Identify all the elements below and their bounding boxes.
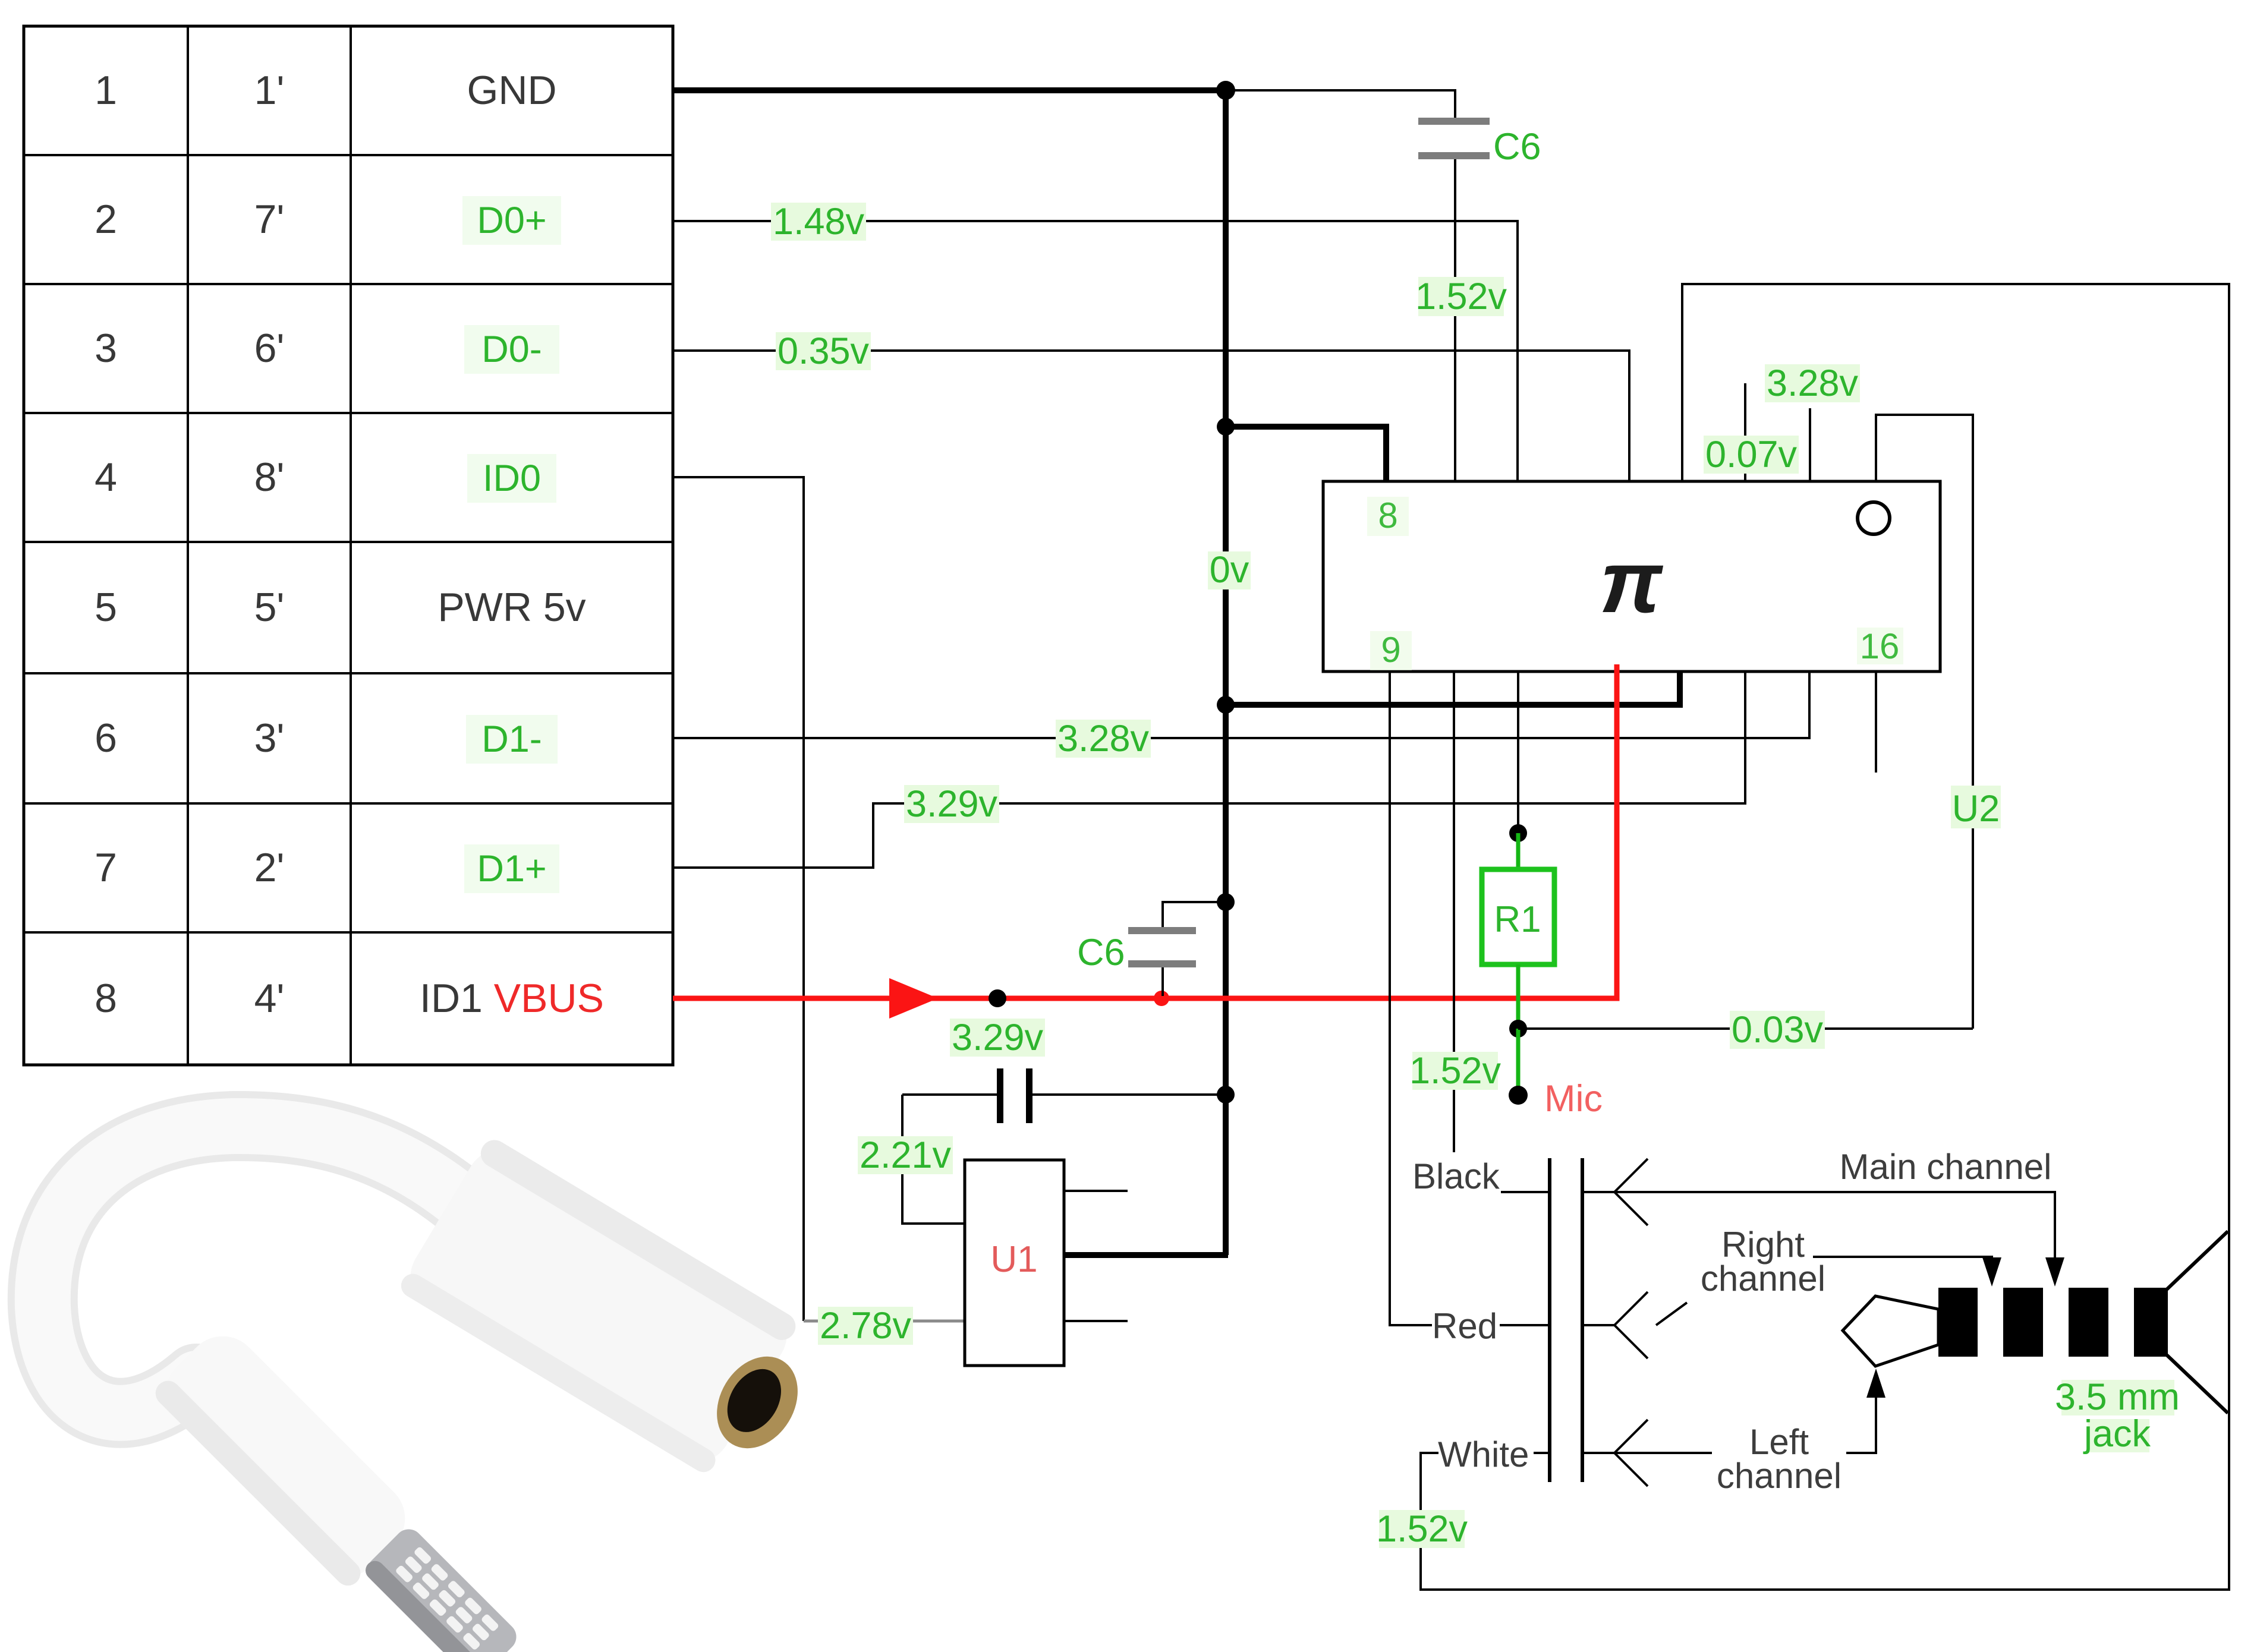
wire VBUS red stub at pi bottom (1614, 664, 1620, 674)
wire GND main thick vertical (1223, 90, 1229, 1255)
svg-text:2: 2 (95, 197, 117, 242)
node junction to pi pin 8 (1217, 418, 1235, 436)
svg-text:D1+: D1+ (477, 848, 546, 890)
wire thick branch into pi bottom (1226, 671, 1680, 705)
wire Main channel (1614, 1192, 2055, 1260)
svg-text:White: White (1438, 1435, 1529, 1474)
svg-text:Red: Red (1432, 1306, 1497, 1346)
node 1.48v label (771, 201, 866, 242)
svg-text:3.29v: 3.29v (952, 1017, 1044, 1058)
svg-text:D1-: D1- (481, 718, 542, 760)
node GND junction (1216, 81, 1235, 100)
pin table (24, 26, 673, 1065)
node 0v label (1208, 549, 1251, 591)
svg-text:ID0: ID0 (483, 458, 541, 499)
jack contact chevron black (1582, 1159, 1648, 1225)
node Left channel arrowhead (1866, 1369, 1885, 1398)
node U2 label (1951, 786, 2001, 830)
svg-text:3: 3 (95, 326, 117, 371)
svg-text:1': 1' (254, 68, 285, 113)
node junction above R1 (1509, 824, 1527, 842)
wire D0+ 1.48v (673, 221, 1518, 481)
svg-text:Black: Black (1412, 1156, 1500, 1196)
node junction below R1 (1509, 1020, 1527, 1038)
wire 0.03v (1518, 1027, 1973, 1030)
capacitor C6 (middle) (1077, 902, 1226, 996)
node Main channel arrowhead (2045, 1257, 2064, 1287)
node 3.5 mm jack label (2055, 1376, 2180, 1455)
capacitor C6 (top) (1418, 118, 1541, 481)
node junction on VBUS (989, 989, 1006, 1007)
wire pi bottom to R1 (1517, 671, 1519, 832)
wire D1- 3.28v (673, 671, 1809, 738)
table column 1 pin numbers (95, 68, 117, 1021)
svg-text:0.35v: 0.35v (777, 330, 870, 372)
svg-text:1: 1 (95, 68, 117, 113)
wire ID0 to U1 (673, 477, 804, 1321)
node 3.28v top label (1765, 362, 1860, 404)
svg-text:9: 9 (1381, 630, 1400, 670)
svg-text:channel: channel (1701, 1259, 1825, 1298)
node 1.52v label bottom left of loop (1376, 1508, 1468, 1550)
svg-text:1.48v: 1.48v (773, 201, 865, 242)
wire GND to C6 (1226, 90, 1455, 119)
svg-text:2.78v: 2.78v (820, 1305, 912, 1347)
photo lightning metal tip (361, 1524, 522, 1652)
svg-text:ID1 VBUS: ID1 VBUS (420, 976, 604, 1021)
svg-text:C6: C6 (1493, 126, 1541, 168)
svg-text:1.52v: 1.52v (1415, 276, 1507, 317)
wire White to capacitor (1534, 1452, 1550, 1454)
wire pin stub 0.07v (1744, 383, 1746, 481)
wire Left channel (1614, 1452, 1712, 1454)
svg-text:5: 5 (95, 585, 117, 630)
capacitor near U1 (902, 1068, 1226, 1224)
jack contact chevron white (1582, 1420, 1648, 1486)
node Mic dot (1509, 1086, 1528, 1105)
node 1.52v label on C6 lead (1415, 276, 1507, 317)
wire Left channel to jack (1846, 1396, 1876, 1453)
node 2.21v label (858, 1134, 953, 1176)
svg-text:Main channel: Main channel (1840, 1147, 2052, 1187)
capacitor bank plates (1550, 1158, 1582, 1482)
svg-text:8: 8 (95, 976, 117, 1021)
node 0.07v label (1704, 434, 1799, 475)
photo cable loop (43, 1126, 493, 1413)
node 3.28v label (1056, 718, 1151, 759)
svg-text:PWR 5v: PWR 5v (437, 585, 586, 630)
chip pi (U?) (1323, 481, 1940, 671)
wire pin 9 to Red (1390, 671, 1432, 1325)
wire 2.78v grey segment (804, 1320, 965, 1323)
node Right channel arrowhead (1982, 1257, 2001, 1287)
svg-text:8: 8 (1378, 496, 1397, 535)
svg-text:3.28v: 3.28v (1057, 718, 1150, 759)
wire GND thick from table (673, 87, 1226, 93)
node red junction C6 bottom (1154, 991, 1169, 1006)
wire VBUS red (673, 664, 1617, 998)
wire pi top right pin to U2 line (1876, 415, 1973, 1029)
svg-text:3.5 mm: 3.5 mm (2055, 1376, 2180, 1418)
photo socket gold ring (701, 1342, 814, 1463)
node junction thick bottom (1217, 696, 1235, 714)
svg-text:4': 4' (254, 976, 285, 1021)
svg-text:4: 4 (95, 455, 117, 500)
svg-text:3.28v: 3.28v (1767, 362, 1859, 404)
svg-text:16: 16 (1860, 626, 1900, 666)
node VBUS arrowhead (889, 978, 938, 1019)
wire D1+ 3.29v (673, 671, 1745, 868)
svg-text:7': 7' (254, 197, 285, 242)
svg-text:3': 3' (254, 715, 285, 761)
svg-text:D0+: D0+ (477, 200, 546, 241)
svg-text:channel: channel (1717, 1456, 1842, 1496)
svg-text:jack: jack (2083, 1413, 2151, 1455)
node junction cap right lead (1217, 1086, 1235, 1104)
svg-text:D0-: D0- (481, 329, 542, 370)
svg-text:Mic: Mic (1544, 1078, 1603, 1120)
photo: lightning to 3.5mm adapter (43, 1126, 814, 1652)
jack 3.5mm plug tip pentagon (1843, 1296, 1938, 1366)
svg-text:7: 7 (95, 845, 117, 890)
svg-text:R1: R1 (1494, 899, 1541, 940)
svg-text:0.07v: 0.07v (1705, 434, 1798, 475)
jack 3.5mm barrel with bands (1938, 1288, 2168, 1357)
svg-text:2.21v: 2.21v (860, 1134, 952, 1176)
svg-text:0v: 0v (1210, 549, 1249, 591)
node 2.78v label (818, 1305, 913, 1347)
wire Red to capacitor (1500, 1324, 1550, 1326)
svg-text:C6: C6 (1077, 932, 1125, 973)
photo socket barrel (396, 1135, 800, 1477)
svg-text:5': 5' (254, 585, 285, 630)
svg-text:U1: U1 (990, 1239, 1037, 1280)
photo plug body (150, 1321, 420, 1591)
node 3.29v label under VBUS (950, 1017, 1045, 1058)
table column 2 mapped pins (254, 68, 285, 1021)
chip U1 (965, 1160, 1128, 1366)
wire thick U1 middle pin (1064, 1252, 1228, 1258)
svg-text:1.52v: 1.52v (1376, 1508, 1468, 1550)
svg-text:2': 2' (254, 845, 285, 890)
wire 1.52v line to Black (1453, 671, 1455, 1152)
resistor R1 (1482, 833, 1554, 1029)
wire thick branch into pi top (pin 8) (1226, 427, 1386, 481)
wire Right channel leader (1656, 1303, 1687, 1325)
node 0.35v label (776, 330, 871, 372)
svg-text:π: π (1600, 533, 1663, 631)
svg-text:GND: GND (467, 68, 556, 113)
node junction C6 top lead (1217, 893, 1235, 911)
jack strain relief lines (2167, 1231, 2228, 1413)
svg-text:1.52v: 1.52v (1409, 1050, 1501, 1092)
wire pin stub 3.28v top (1809, 408, 1811, 481)
wire pin 16 stub (1875, 671, 1877, 773)
jack contact chevron red (1582, 1292, 1648, 1358)
svg-text:3.29v: 3.29v (906, 783, 998, 825)
wire R1 to Mic (1516, 1029, 1521, 1095)
svg-text:0.03v: 0.03v (1732, 1009, 1824, 1051)
wire D0- 0.35v (673, 351, 1629, 481)
node 1.52v mid label (1409, 1050, 1501, 1092)
svg-text:6': 6' (254, 326, 285, 371)
svg-text:U2: U2 (1952, 788, 2000, 830)
svg-text:6: 6 (95, 715, 117, 761)
node 0.03v label (1730, 1009, 1825, 1051)
wire Black to capacitor (1501, 1191, 1550, 1193)
node 3.29v label (904, 783, 999, 825)
svg-text:8': 8' (254, 455, 285, 500)
wire Right channel (1813, 1257, 1992, 1260)
table column 3 signal names (420, 68, 604, 1021)
wire U2 outer loop (pi top to jack white) (1421, 284, 2229, 1590)
